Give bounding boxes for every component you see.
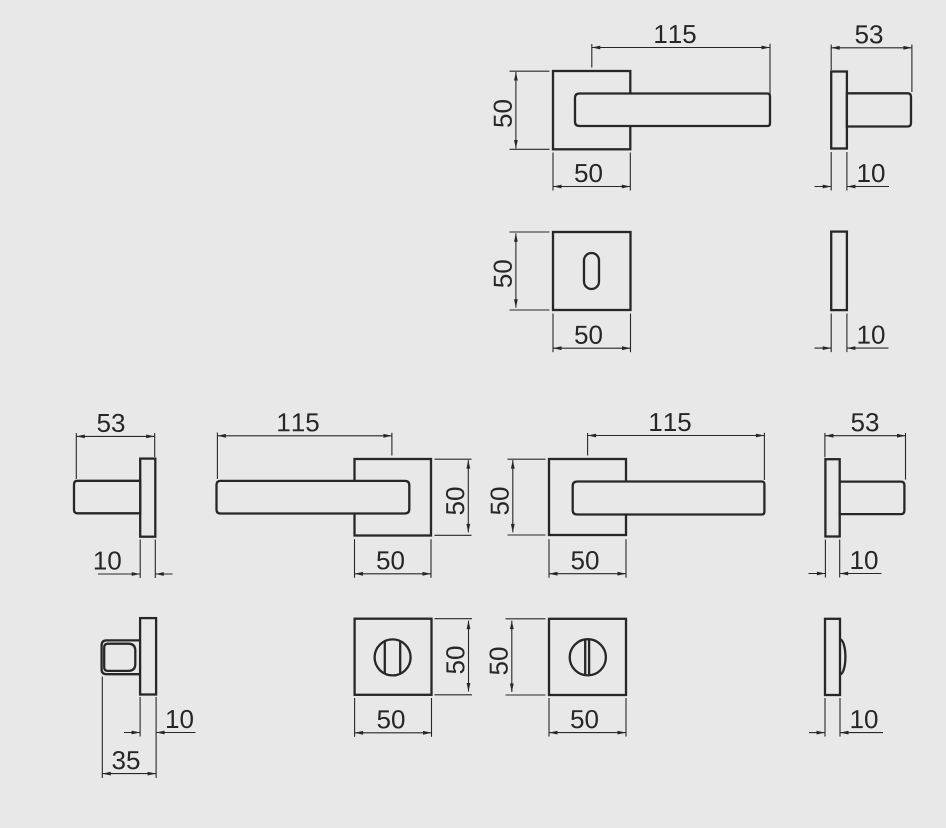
handle B side view: neck/grip bar <box>74 481 140 514</box>
WC turn side view: thumbturn knob face line <box>104 644 135 671</box>
dimension 10 (handle C rose thickness) <box>809 540 882 578</box>
dimension 10 (escutcheon thickness) <box>815 314 889 353</box>
handle B front view: lever bar <box>217 481 410 514</box>
dimension 50 (handle B rose height) <box>435 459 472 535</box>
handle B front view: square rose 50x50 <box>355 459 432 536</box>
dimension 50 (handle A rose height) <box>494 71 550 149</box>
dimension 10 (handle B rose thickness) <box>95 540 173 579</box>
dimension 50 (WC rose D width) <box>355 698 432 737</box>
WC rose D front view: square plate 50x50 <box>355 619 432 695</box>
dimension 50 (WC rose E width) <box>549 698 626 737</box>
handle B side view: rose plate <box>140 459 155 537</box>
dimension 53 (handle A projection) <box>831 25 912 92</box>
handle A side view: neck/grip bar <box>847 93 911 126</box>
handle C front view: square rose 50x50 <box>549 459 626 535</box>
dimension 115 (handle C length) <box>588 413 765 480</box>
WC rose E front view: release circle <box>570 639 606 675</box>
key escutcheon front view: keyhole slot <box>584 253 599 289</box>
dimension 10 (handle A rose thickness) <box>815 152 890 191</box>
WC rose E side view: release button bump <box>840 639 845 674</box>
handle C side view: rose plate <box>825 459 839 536</box>
key escutcheon front view: square plate 50x50 <box>553 232 631 310</box>
handle C front view: lever bar <box>573 482 765 515</box>
dimension 50 (escutcheon height) <box>494 232 550 310</box>
WC rose D front view: thumbturn grip edges <box>384 641 386 673</box>
dimension 50 (handle C rose height) <box>490 459 545 535</box>
handle A front view: lever bar <box>575 94 770 127</box>
WC turn side view: thumbturn knob outline <box>102 640 141 674</box>
dimension 10 (WC rose thickness) <box>124 697 196 778</box>
handle C side view: neck/grip bar <box>840 482 905 514</box>
dimension 50 (WC rose D height) <box>435 619 473 695</box>
dimension 50 (escutcheon width) <box>553 314 631 353</box>
WC rose E side view: plate <box>825 619 840 695</box>
handle A front view: square rose 50x50 <box>553 71 630 149</box>
dimension 115 (handle B length) <box>217 413 392 479</box>
dimension 115 (handle A length) <box>592 25 770 101</box>
dimension 50 (WC rose E height) <box>489 619 545 695</box>
dimension 50 (handle A rose width) <box>553 153 630 191</box>
handle A side view: rose plate <box>831 72 847 149</box>
key escutcheon side view: plate <box>831 232 847 311</box>
dimension 53 (handle C projection) <box>825 413 906 480</box>
dimension 10 (WC rose E thickness) <box>809 698 883 737</box>
dimension 35 (WC turn projection) <box>102 677 156 779</box>
WC rose D front view: thumbturn circle <box>375 639 411 675</box>
dimension 50 (handle C rose width) <box>549 539 626 578</box>
WC turn side view: rose plate <box>140 618 156 694</box>
WC rose E front view: coin slot edges <box>584 640 586 676</box>
dimension 53 (handle B projection) <box>76 414 154 479</box>
WC rose E front view: square plate 50x50 <box>549 619 626 695</box>
dimension 50 (handle B rose width) <box>355 539 432 578</box>
